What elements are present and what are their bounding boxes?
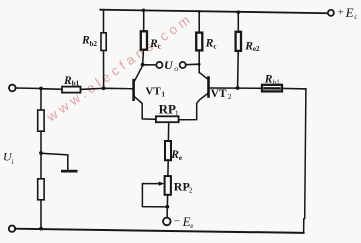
transistor VT2 base wire	[210, 87, 238, 89]
resistor Rc1 body	[141, 31, 147, 49]
svg-text:b2: b2	[90, 40, 98, 48]
svg-text:e: e	[190, 222, 193, 230]
potentiometer RP2 wiper arrow	[144, 183, 162, 185]
wire input to node	[16, 87, 42, 90]
wire top supply rail	[100, 10, 327, 14]
resistor R2 divider body	[38, 179, 44, 200]
resistor R1 divider body	[38, 110, 44, 131]
junction dot rail Re2	[237, 10, 241, 14]
label Rb1 right	[264, 74, 281, 87]
junction dot rail Rc2	[198, 10, 201, 13]
resistor Rb1 left body	[62, 87, 81, 93]
svg-text:R: R	[244, 41, 253, 53]
wire to ground	[41, 153, 68, 169]
wire divider middle	[40, 131, 42, 179]
resistor Rc1 top wire	[143, 10, 145, 31]
junction dot RP2 loop	[165, 205, 169, 209]
terminal Uo right	[180, 62, 186, 68]
resistor Rc2 top wire	[198, 11, 200, 32]
svg-text:c: c	[213, 42, 216, 50]
label Rb1 left	[63, 75, 80, 88]
svg-text:E: E	[345, 5, 354, 20]
transistor VT1 base wire	[104, 87, 133, 89]
svg-text:+: +	[338, 8, 344, 19]
junction dot input node	[39, 87, 43, 91]
transistor VT1 bar	[132, 80, 135, 100]
svg-text:R: R	[205, 38, 214, 50]
svg-text:R: R	[170, 149, 179, 161]
svg-text:U: U	[164, 58, 174, 72]
label RP1	[159, 102, 179, 118]
svg-text:RP: RP	[159, 102, 176, 117]
svg-text:R: R	[149, 38, 158, 50]
resistor Re body	[165, 141, 171, 160]
label VT1	[145, 85, 165, 98]
terminal input upper	[9, 85, 16, 92]
svg-text:RP: RP	[174, 179, 190, 193]
terminal input lower	[9, 226, 15, 232]
svg-text:i: i	[12, 158, 14, 166]
junction dot base VT1 / Rb2	[102, 86, 106, 90]
potentiometer RP1 body	[156, 116, 179, 122]
label VT2	[211, 88, 232, 101]
wire to Uo left terminal	[143, 64, 157, 66]
label Rc1	[149, 38, 161, 50]
svg-text:c: c	[354, 13, 357, 21]
junction dot ground branch	[39, 151, 43, 155]
svg-text:e: e	[179, 154, 182, 162]
svg-text:o: o	[174, 64, 178, 73]
label RP2	[174, 179, 193, 194]
label Ui	[3, 150, 14, 166]
resistor Rc2 body	[196, 33, 202, 51]
label Rb2	[81, 35, 97, 48]
transistor VT1 emitter	[134, 96, 156, 119]
wire right vertical	[304, 89, 306, 233]
potentiometer RP1 wiper wire	[167, 122, 169, 141]
terminal -Ee	[163, 218, 171, 226]
label -Ee	[174, 214, 194, 230]
junction dot Uo left	[141, 63, 145, 67]
label Re	[170, 149, 182, 162]
resistor Rc1 bottom wire	[142, 50, 145, 65]
transistor VT1 collector	[134, 66, 142, 82]
junction dot Uo right	[198, 63, 201, 66]
svg-text:b1: b1	[72, 80, 80, 88]
resistor Rb2 top wire	[103, 10, 105, 33]
resistor Rc2 bottom wire	[198, 50, 200, 72]
svg-text:1: 1	[175, 109, 179, 118]
svg-text:2: 2	[189, 185, 193, 194]
resistor Rb2 bottom wire	[103, 51, 105, 89]
wire divider upper	[40, 89, 42, 111]
transistor VT2 bar	[207, 78, 210, 97]
resistor Re2 top wire	[237, 12, 239, 32]
junction dot bottom rail	[39, 227, 43, 231]
potentiometer RP2 body	[165, 176, 171, 195]
svg-text:1: 1	[162, 91, 166, 99]
label Uo	[164, 58, 178, 73]
svg-text:−: −	[174, 216, 180, 228]
svg-text:R: R	[63, 75, 72, 87]
svg-text:b1: b1	[273, 78, 281, 86]
label Rc2	[205, 38, 217, 51]
wire Rb1 right to corner	[282, 87, 306, 90]
wire bottom rail	[15, 229, 304, 233]
wire RP2 wiper loop	[142, 184, 167, 207]
resistor Rb2 body	[101, 33, 106, 51]
wire from Uo right terminal	[186, 63, 200, 66]
resistor Rb1 right body	[262, 85, 282, 92]
terminal +Ec	[328, 10, 334, 16]
svg-text:R: R	[264, 74, 273, 86]
svg-text:VT: VT	[145, 85, 161, 97]
wire node to Rb1	[41, 88, 62, 91]
wire RP2 bottom	[166, 195, 169, 218]
wire divider lower	[40, 200, 42, 229]
label +Ec	[338, 5, 358, 21]
resistor Re2 body	[236, 32, 241, 51]
terminal Uo left	[156, 62, 162, 68]
junction dot base VT2 / Re2	[236, 86, 240, 90]
wire Rb1 to base node	[81, 88, 104, 89]
svg-text:e2: e2	[253, 45, 260, 53]
resistor Re bottom wire	[167, 160, 169, 176]
svg-text:c: c	[158, 42, 161, 50]
transistor VT2 emitter	[179, 93, 208, 120]
label Re2	[244, 41, 260, 54]
svg-text:VT: VT	[211, 88, 227, 100]
svg-text:2: 2	[228, 92, 232, 101]
ground	[61, 170, 78, 173]
wire VT2 base to Rb1 right	[238, 87, 262, 89]
resistor Re2 bottom wire	[237, 51, 240, 88]
transistor VT2 collector	[199, 72, 208, 79]
junction dot rail Rc1	[142, 9, 146, 13]
